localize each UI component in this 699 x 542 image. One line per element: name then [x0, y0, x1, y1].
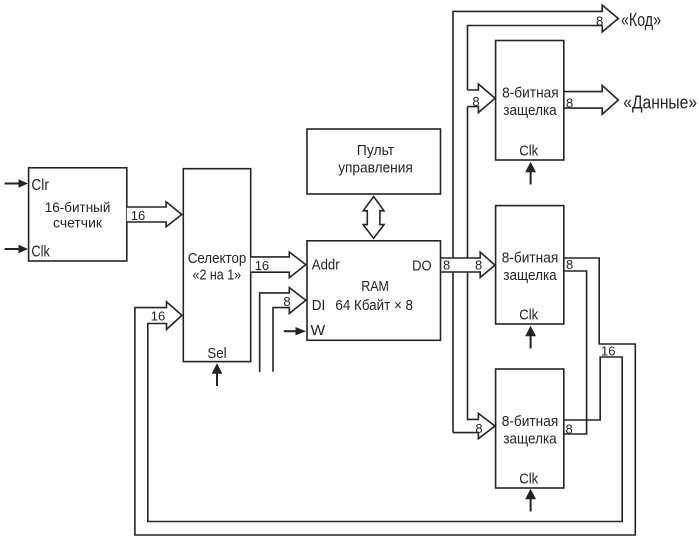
block: latch 3 (8-bit) [496, 369, 564, 488]
bidirectional bus control panel to RAM [363, 197, 384, 239]
wire: DO riser outer vertical + Kod bus out [453, 5, 618, 258]
svg-text:Clk: Clk [519, 471, 538, 488]
svg-text:8: 8 [443, 258, 450, 273]
block: 16-bit counter [29, 168, 127, 261]
svg-text:Clr: Clr [31, 177, 49, 194]
svg-text:16: 16 [151, 309, 165, 324]
svg-text:64 Кбайт × 8: 64 Кбайт × 8 [335, 298, 413, 314]
block: RAM 64K x 8 [307, 241, 441, 340]
svg-text:счетчик: счетчик [53, 215, 103, 230]
block: selector 2 to 1 [183, 169, 250, 362]
svg-text:16: 16 [601, 344, 615, 359]
svg-text:Clk: Clk [519, 143, 538, 160]
wire: riser inner vertical segment [467, 107, 469, 258]
svg-text:Clk: Clk [519, 306, 538, 323]
bus latch 1 to Dannye output (8) [564, 85, 618, 114]
svg-text:8: 8 [475, 258, 482, 273]
input arrow W [284, 327, 306, 335]
svg-text:DI: DI [312, 297, 326, 314]
block: control panel [307, 129, 441, 194]
bus counter to selector (16) [127, 202, 182, 227]
svg-text:16: 16 [131, 208, 145, 223]
input arrow Clr [5, 179, 28, 187]
svg-text:8-битная: 8-битная [502, 414, 559, 430]
input arrow Clk latch3 [525, 489, 536, 512]
feedback bus 16: outer boundary with arrow into selector [135, 258, 635, 535]
svg-text:«Данные»: «Данные» [623, 93, 697, 113]
block: latch 2 (8-bit) [496, 206, 564, 324]
svg-text:8: 8 [283, 294, 290, 309]
svg-text:8-битная: 8-битная [502, 85, 559, 101]
svg-text:16-битный: 16-битный [45, 200, 111, 215]
svg-text:защелка: защелка [503, 268, 557, 284]
bus selector to RAM Addr (16) [251, 252, 306, 278]
svg-text:Пульт: Пульт [357, 143, 395, 159]
svg-text:16: 16 [255, 258, 269, 273]
wire: riser outer vertical lower segment [452, 272, 454, 433]
bus DI input (8) with hanging feed lines [260, 288, 306, 372]
svg-text:Clk: Clk [31, 244, 50, 261]
input arrow Sel [212, 363, 223, 386]
bus RAM DO to latch 2 input (8) [441, 252, 496, 277]
svg-text:«2 на 1»: «2 на 1» [193, 268, 242, 284]
svg-text:RAM: RAM [361, 279, 389, 295]
bus branch to latch 1 input (8) [468, 84, 496, 113]
feedback bus 16: inner island between latch outputs [564, 271, 587, 434]
input arrow Clk [5, 245, 28, 253]
svg-text:8: 8 [566, 96, 573, 111]
svg-text:Селектор: Селектор [188, 251, 247, 267]
bus branch to latch 3 input (8) [453, 272, 495, 439]
svg-text:DO: DO [412, 258, 432, 275]
block: latch 1 (8-bit) [496, 41, 564, 161]
input arrow Clk latch2 [525, 326, 536, 349]
svg-text:8-битная: 8-битная [502, 251, 559, 267]
svg-text:защелка: защелка [503, 432, 557, 448]
svg-text:W: W [311, 322, 326, 339]
svg-text:«Код»: «Код» [621, 10, 661, 30]
svg-text:8: 8 [566, 257, 573, 272]
svg-text:Addr: Addr [312, 256, 340, 273]
svg-text:8: 8 [596, 14, 603, 29]
svg-text:8: 8 [475, 421, 482, 436]
svg-text:защелка: защелка [503, 103, 557, 119]
svg-text:Sel: Sel [207, 345, 226, 362]
input arrow Clk latch1 [525, 162, 536, 185]
svg-text:управления: управления [338, 160, 413, 176]
svg-text:8: 8 [566, 422, 573, 437]
svg-text:8: 8 [472, 94, 479, 109]
